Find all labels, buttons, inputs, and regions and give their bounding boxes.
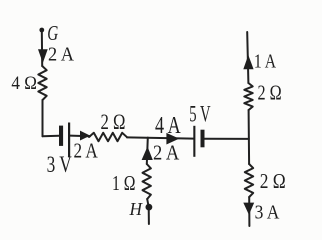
wire left vertical upper (G branch) xyxy=(41,30,43,66)
wire right branch top vertical xyxy=(247,32,248,83)
node G dot xyxy=(39,28,44,33)
svg-text:3 A: 3 A xyxy=(255,202,280,224)
svg-text:4 Ω: 4 Ω xyxy=(11,74,37,94)
svg-text:4 A: 4 A xyxy=(155,113,181,139)
wire 1ohm resistor to node H and below xyxy=(147,199,149,224)
resistor 2ohm top-right zigzag xyxy=(244,83,252,110)
svg-text:G: G xyxy=(47,21,58,45)
battery 5V long thin plate xyxy=(193,126,195,157)
svg-text:2 Ω: 2 Ω xyxy=(258,81,282,105)
battery 3V long thin plate xyxy=(68,123,70,158)
wire bottom-left horizontal to 3V battery xyxy=(43,135,60,138)
svg-text:3 V: 3 V xyxy=(47,152,72,177)
svg-text:H: H xyxy=(129,199,143,219)
arrow 2A up (middle branch) xyxy=(142,147,153,161)
resistor 2ohm bottom-right zigzag xyxy=(245,164,253,197)
resistor 4ohm zigzag xyxy=(38,66,46,100)
battery 3V short thick plate xyxy=(59,126,63,146)
wire 2ohm resistor to 5V battery through node xyxy=(127,137,193,138)
arrow 1A up (right branch) xyxy=(243,55,253,69)
wire 3V battery to 2ohm resistor xyxy=(70,135,90,138)
svg-text:2 A: 2 A xyxy=(153,141,180,165)
resistor 1ohm zigzag xyxy=(143,164,151,199)
svg-text:1 Ω: 1 Ω xyxy=(112,171,136,195)
svg-text:5 V: 5 V xyxy=(189,102,211,127)
battery 5V short thick plate xyxy=(201,130,205,148)
wire right branch bottom vertical xyxy=(248,197,250,226)
wire left vertical lower (G branch) xyxy=(42,100,44,136)
svg-text:2 Ω: 2 Ω xyxy=(260,169,286,193)
wire middle branch vertical xyxy=(147,138,148,164)
arrow 3A down (right branch) xyxy=(243,203,254,215)
svg-text:2 Ω: 2 Ω xyxy=(101,109,126,134)
svg-text:2 A: 2 A xyxy=(74,138,99,162)
node H dot xyxy=(146,204,153,211)
wire right branch middle vertical xyxy=(248,110,251,164)
arrow 2A down (G branch) xyxy=(38,49,48,63)
arrow 4A right xyxy=(166,133,179,145)
arrow 2A right (after 3V battery) xyxy=(80,131,90,141)
svg-text:1 A: 1 A xyxy=(254,51,277,73)
svg-text:2 A: 2 A xyxy=(48,45,74,66)
wire 5V battery to right branch xyxy=(204,138,248,140)
resistor 2ohm horizontal zigzag xyxy=(89,133,127,141)
